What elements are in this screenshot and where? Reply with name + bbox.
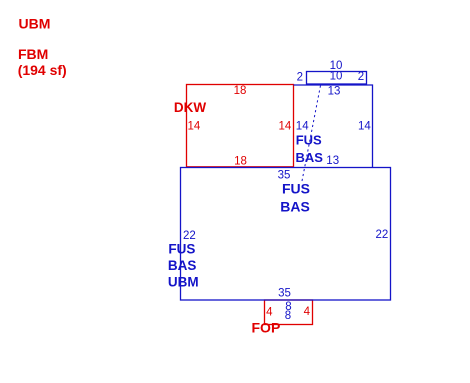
svg-text:2: 2 [297,71,303,83]
svg-text:2: 2 [358,71,364,83]
svg-text:14: 14 [279,121,292,133]
svg-text:FUS: FUS [282,181,310,197]
svg-text:8: 8 [285,310,291,322]
svg-text:18: 18 [234,156,247,168]
svg-text:22: 22 [376,229,389,241]
svg-text:BAS: BAS [168,258,197,273]
svg-text:UBM: UBM [168,275,199,290]
svg-text:DKW: DKW [174,100,206,115]
svg-text:18: 18 [234,85,247,97]
svg-text:UBM: UBM [19,15,51,31]
area FUS/BAS/UBM main (35x22) [181,168,391,301]
svg-text:(194 sf): (194 sf) [18,62,67,78]
svg-text:22: 22 [183,230,196,242]
svg-text:14: 14 [358,121,371,133]
svg-text:13: 13 [328,86,341,98]
svg-text:35: 35 [278,287,291,299]
area bump FUS/BAS (10x2) [307,72,367,85]
svg-text:4: 4 [304,306,311,318]
area DKW (18x14) red [187,85,294,167]
svg-text:14: 14 [296,121,309,133]
area FOP (8x4) red [265,300,313,325]
svg-text:13: 13 [326,155,339,167]
svg-text:14: 14 [188,120,201,132]
svg-text:10: 10 [330,71,343,83]
svg-text:BAS: BAS [280,198,310,214]
svg-text:FUS: FUS [168,241,195,256]
svg-text:FUS: FUS [296,133,322,148]
dashed connector from FUS/BAS label to bump area [302,86,321,182]
svg-text:FOP: FOP [252,319,281,335]
svg-text:FBM: FBM [18,46,48,62]
svg-text:4: 4 [266,306,273,318]
svg-text:BAS: BAS [296,150,324,165]
area FUS/BAS upper right (13x14), left edge shared with DKW [294,85,373,168]
